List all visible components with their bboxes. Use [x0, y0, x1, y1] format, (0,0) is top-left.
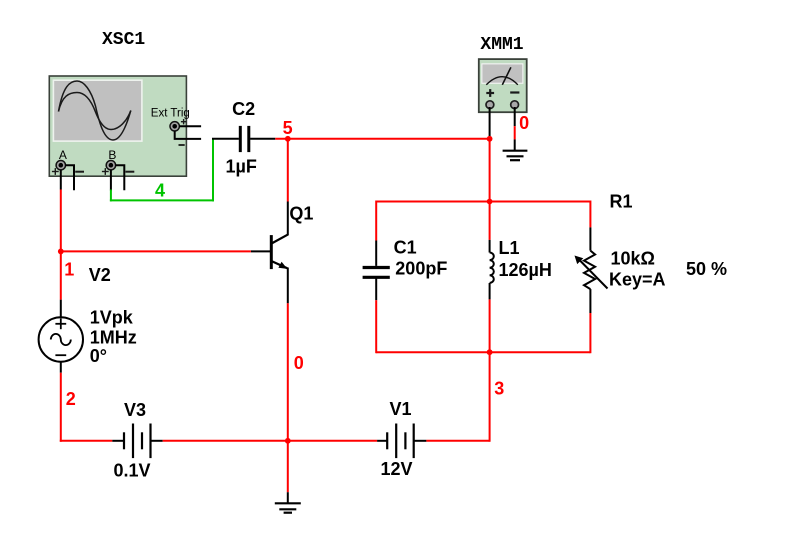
- scope A minus mark: [75, 171, 84, 173]
- svg-text:200pF: 200pF: [395, 258, 447, 278]
- svg-text:1: 1: [64, 260, 74, 280]
- node 0 junction dot: [285, 438, 291, 444]
- multimeter plus mark: [486, 89, 494, 97]
- scope terminal Ext Trig: [170, 122, 179, 131]
- tank bottom junction dot: [487, 349, 493, 355]
- inductor L1: [490, 253, 494, 283]
- wire tank top rail red: [376, 201, 590, 203]
- wire C1 top black lead: [375, 241, 377, 266]
- wire green horizontal net 4: [110, 199, 214, 201]
- wire XMM plus lead black: [489, 107, 491, 137]
- svg-text:V2: V2: [89, 265, 111, 285]
- multimeter terminal plus: [486, 101, 494, 109]
- battery V1: [387, 424, 414, 459]
- wire V2 to rail red net 2: [60, 373, 62, 442]
- wire L1 top red: [489, 202, 491, 240]
- scope Ext Trig plus mark: [181, 119, 186, 124]
- scope terminal A: [56, 161, 65, 170]
- capacitor C1: [363, 268, 390, 278]
- wire bottom rail red left: [60, 440, 113, 442]
- wire C2 right lead: [250, 138, 275, 140]
- svg-text:Ext Trig: Ext Trig: [151, 107, 190, 119]
- wire R1 top red: [589, 201, 591, 228]
- wire base black lead: [251, 250, 271, 252]
- wire A unused hook: [65, 165, 74, 190]
- svg-text:XMM1: XMM1: [480, 35, 523, 55]
- potentiometer R1 wiper arrow: [575, 256, 608, 289]
- wire V3 left black lead: [112, 440, 124, 442]
- tank top junction dot: [487, 199, 493, 205]
- svg-text:B: B: [108, 148, 116, 162]
- svg-text:0°: 0°: [90, 346, 107, 366]
- wire V2 bottom black lead: [60, 362, 62, 373]
- svg-text:1µF: 1µF: [226, 157, 257, 177]
- wire net 3 vertical red: [489, 352, 491, 442]
- svg-text:1MHz: 1MHz: [90, 328, 137, 348]
- svg-text:V3: V3: [124, 400, 146, 420]
- svg-text:1Vpk: 1Vpk: [90, 308, 134, 328]
- svg-text:XSC1: XSC1: [102, 30, 145, 50]
- wire ground stub black: [287, 492, 289, 503]
- wire R1 top black lead: [589, 227, 591, 250]
- wire C2 left lead: [212, 138, 239, 140]
- wire XMM minus lead black upper: [514, 107, 516, 126]
- svg-text:0.1V: 0.1V: [114, 461, 151, 481]
- battery V3: [124, 424, 151, 459]
- wire tank bottom rail red: [376, 351, 590, 353]
- svg-text:0: 0: [519, 113, 529, 133]
- multimeter XMM1 body: [479, 59, 527, 112]
- wire Ext Trig minus hook: [175, 131, 201, 139]
- wire B unused hook: [115, 165, 124, 190]
- wire scope A to node 1 red: [60, 190, 62, 300]
- svg-text:4: 4: [155, 181, 165, 201]
- transistor Q1: [271, 234, 288, 269]
- wire scope A lead black: [60, 170, 62, 190]
- wire R1 bottom red: [589, 313, 591, 353]
- wire V1 right black lead: [414, 440, 427, 442]
- scope Ext Trig minus mark: [179, 144, 185, 146]
- wire C1 bottom red: [375, 300, 377, 353]
- wire collector black lead: [287, 202, 289, 236]
- wire XMM junction to tank top red: [489, 139, 491, 202]
- svg-text:12V: 12V: [381, 459, 413, 479]
- svg-text:C2: C2: [232, 99, 255, 119]
- wire emitter red to rail: [287, 303, 289, 441]
- multimeter minus mark: [510, 91, 519, 93]
- wire bottom rail red right: [426, 440, 489, 442]
- oscilloscope XSC1 body: [49, 76, 186, 176]
- scope A plus mark: [52, 168, 59, 175]
- svg-text:Key=A: Key=A: [609, 270, 666, 290]
- AC source V2: [39, 317, 83, 361]
- wire V2 top black lead: [60, 300, 62, 318]
- wire Ext Trig plus stub: [179, 125, 201, 127]
- ground XMM: [503, 151, 528, 161]
- wire C1 top red: [375, 201, 377, 241]
- scope terminal B: [106, 161, 115, 170]
- svg-text:0: 0: [294, 353, 304, 373]
- node 1 junction dot: [58, 249, 64, 255]
- wire green vertical to C2: [212, 139, 214, 202]
- svg-text:50 %: 50 %: [686, 259, 727, 279]
- wire scope B green vertical: [110, 190, 112, 202]
- svg-text:2: 2: [66, 389, 76, 409]
- wire ground stub red: [287, 441, 289, 492]
- svg-text:V1: V1: [390, 399, 412, 419]
- wire C1 bottom black lead: [375, 277, 377, 300]
- wire emitter black lead: [287, 268, 289, 304]
- wire base red net 1: [61, 250, 251, 252]
- svg-text:3: 3: [494, 379, 504, 399]
- capacitor C2: [240, 126, 249, 152]
- scope B plus mark: [102, 168, 109, 175]
- wire bottom rail red middle: [163, 440, 377, 442]
- svg-text:5: 5: [283, 118, 293, 138]
- wire L1 top black lead: [489, 240, 491, 253]
- node 5 at XMM junction dot: [487, 136, 493, 142]
- ground center: [275, 503, 301, 512]
- svg-text:10kΩ: 10kΩ: [611, 249, 655, 269]
- wire V1 left black lead: [377, 440, 387, 442]
- wire L1 bottom black lead: [489, 283, 491, 299]
- wire collector red: [287, 139, 289, 202]
- wire R1 bottom black lead: [589, 289, 591, 313]
- wire V3 right black lead: [151, 440, 163, 442]
- multimeter terminal minus: [511, 101, 519, 109]
- wire node 5 horizontal red: [275, 138, 489, 140]
- scope B minus mark: [126, 171, 135, 173]
- node 5 junction dot: [285, 136, 291, 142]
- svg-text:C1: C1: [394, 238, 417, 258]
- svg-text:R1: R1: [610, 192, 633, 212]
- svg-text:Q1: Q1: [289, 204, 313, 224]
- wire XMM minus red segment net 0: [514, 126, 516, 139]
- svg-text:126µH: 126µH: [499, 260, 552, 280]
- svg-text:L1: L1: [499, 238, 520, 258]
- potentiometer R1 zigzag: [584, 251, 595, 290]
- wire scope B lead black: [110, 170, 112, 191]
- wire XMM minus black to ground: [514, 139, 516, 150]
- wire L1 bottom red: [489, 299, 491, 352]
